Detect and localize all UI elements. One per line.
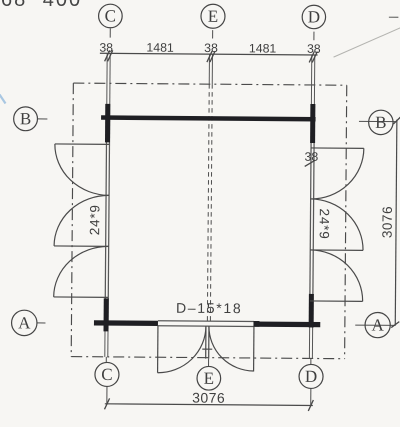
svg-text:D: D [308,7,320,26]
svg-text:38: 38 [99,41,113,55]
svg-text:B: B [20,109,31,128]
svg-text:E: E [204,369,215,388]
svg-text:A: A [371,316,384,335]
svg-text:C: C [101,365,112,384]
svg-text:24*9: 24*9 [87,204,102,235]
svg-text:24*9: 24*9 [317,208,332,239]
svg-text:1481: 1481 [146,41,174,55]
svg-text:E: E [208,7,219,26]
svg-text:1481: 1481 [249,41,277,55]
svg-text:3076: 3076 [380,206,395,238]
svg-text:D: D [305,367,317,386]
svg-text:D–15*18: D–15*18 [176,300,243,317]
svg-text:38: 38 [307,42,321,56]
svg-text:3076: 3076 [192,390,225,406]
svg-text:A: A [18,313,31,332]
svg-text:68 400: 68 400 [1,0,82,11]
svg-text:38: 38 [204,41,218,55]
svg-text:38: 38 [304,150,318,164]
svg-text:B: B [375,113,386,132]
svg-text:C: C [105,6,116,25]
